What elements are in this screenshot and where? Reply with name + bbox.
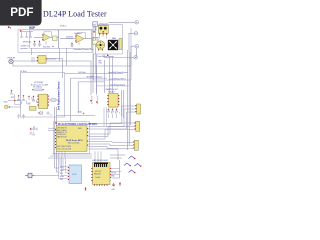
svg-text:P50: P50	[99, 63, 102, 65]
gain network U1 aux	[53, 36, 58, 41]
svg-text:div: div	[52, 46, 54, 48]
svg-text:Constant Current Circ: Constant Current Circ	[74, 48, 94, 51]
transistor Q3	[135, 164, 142, 167]
capacitor C1	[33, 41, 36, 47]
wire: MCU to J2 pin1	[89, 106, 136, 124]
wire: INA cap drops	[109, 114, 117, 119]
terminal J-A	[135, 21, 138, 24]
svg-text:V-Sense: V-Sense	[108, 91, 115, 93]
terminal J-C	[135, 45, 138, 48]
svg-text:Microcontroller: Microcontroller	[68, 142, 80, 145]
ground symbol GND1	[17, 114, 20, 118]
wire: MCU to J3 pin2	[89, 126, 135, 136]
wire: MCU to J3 pin3	[89, 129, 135, 139]
wire: load rail 1	[13, 61, 91, 95]
capacitor C14	[22, 95, 27, 104]
wire: load rail 0	[46, 58, 62, 78]
svg-text:PDF: PDF	[10, 6, 33, 19]
block frame C2	[94, 28, 132, 80]
wire: A-block stub 3	[31, 48, 33, 55]
wire: 5V rail	[65, 73, 124, 75]
wire: sense resistor drop 1	[92, 54, 94, 93]
wire: esp top feeds	[110, 157, 122, 159]
capacitor C16	[20, 37, 23, 38]
svg-text:5V0 Rail: 5V0 Rail	[78, 72, 86, 74]
svg-text:Rail Stk: Rail Stk	[43, 46, 50, 49]
transistor Q2	[124, 163, 131, 166]
wire: gate vertical 2	[77, 82, 79, 113]
wire: esp right drop	[112, 160, 120, 178]
wire: lcd top bus	[48, 154, 92, 158]
wire: right bus a	[127, 50, 129, 150]
wire: LCD feed 1	[55, 107, 60, 168]
diode D1	[94, 37, 97, 41]
svg-text:2nd Replacement Sensor: 2nd Replacement Sensor	[58, 81, 61, 110]
ESP32 module U7	[91, 163, 111, 186]
diode D2	[38, 111, 42, 115]
fan connector J5	[119, 39, 122, 50]
connector J4	[133, 140, 138, 150]
block frame A2: current set amplifier	[59, 30, 92, 48]
USB jack J6	[25, 173, 35, 178]
wire: terminal3 drop	[136, 48, 138, 58]
wire: gate vertical 1	[70, 78, 72, 115]
wire: relay feeds	[95, 26, 97, 54]
svg-text:COIL: COIL	[93, 30, 97, 32]
buck converter U3	[37, 94, 49, 108]
trimmer box U6	[93, 37, 99, 44]
wire: relay pin stubs	[100, 35, 107, 39]
svg-text:Load Wiring Select: Load Wiring Select	[109, 78, 126, 81]
svg-text:LCD: LCD	[72, 174, 77, 176]
inductor L1	[49, 99, 59, 101]
wire: MCU to J3 pin1	[89, 123, 135, 134]
LED D3	[112, 183, 116, 191]
capacitor C12	[115, 109, 120, 114]
svg-text:5Vok: 5Vok	[4, 102, 8, 104]
wire: MCU to J2 pin3	[89, 112, 136, 129]
terminal J-D	[134, 56, 137, 59]
connector J2	[135, 104, 140, 114]
wire: led cluster	[8, 96, 21, 107]
wire: mid frame line	[57, 116, 96, 122]
capacitor C19	[10, 91, 14, 96]
svg-text:VinSns: VinSns	[60, 26, 66, 28]
svg-text:FAN RLY BZ: FAN RLY BZ	[57, 135, 67, 138]
svg-text:2nd Relay Board: 2nd Relay Board	[110, 84, 125, 86]
transistor Q4	[129, 170, 136, 173]
microcontroller block U5	[55, 126, 88, 152]
wire: INA i2c pair	[104, 108, 107, 127]
svg-text:5V Rail: 5V Rail	[20, 71, 27, 73]
voltage reference cluster: wire	[20, 32, 33, 36]
connector J3	[135, 121, 140, 131]
wire: mcu left stubs	[48, 128, 56, 131]
wire: U2 out	[46, 58, 56, 60]
svg-text:Fan Relay Buzzer: Fan Relay Buzzer	[98, 55, 115, 58]
fan M1	[108, 40, 118, 50]
block frame C3	[97, 85, 130, 87]
block frame E: MCU	[54, 122, 90, 154]
wire: MCU to J4 pin3	[89, 147, 134, 149]
op-amp U1B	[60, 33, 92, 46]
capacitor C10	[107, 109, 112, 114]
svg-text:LCD_CS LCD_RS: LCD_CS LCD_RS	[57, 148, 72, 150]
block frame B: relay fan buzzer	[93, 25, 123, 55]
wire: lcd feeds left	[59, 154, 68, 179]
svg-text:FAN: FAN	[112, 37, 116, 40]
voltage reference U2	[37, 56, 47, 64]
svg-text:RST: RST	[60, 179, 63, 181]
wire: INA right bus 2	[123, 90, 125, 118]
svg-text:DL24 Tester MCU: DL24 Tester MCU	[66, 139, 83, 142]
transistor Q1	[129, 156, 136, 159]
svg-text:DL24P Load Tester: DL24P Load Tester	[43, 10, 107, 19]
relay K1	[98, 25, 108, 34]
wire: sense resistor drop 2	[96, 54, 98, 93]
resistor R21	[119, 182, 121, 186]
svg-text:ESP-32: ESP-32	[95, 171, 101, 173]
block frame D: buck converter	[21, 73, 65, 118]
crystal Y1	[30, 127, 37, 131]
wire: A-block stub 2	[66, 48, 68, 65]
wire: LCD feed 2	[57, 107, 60, 172]
LCD module LCD1	[69, 165, 82, 184]
wire: MCU to J2 pin2	[89, 109, 136, 127]
node: I2C junction	[83, 113, 85, 115]
inductor L2	[30, 106, 37, 110]
svg-text:TX RX: TX RX	[111, 173, 117, 175]
wire: INA drop 2	[108, 57, 110, 93]
op-amp U1	[34, 32, 59, 45]
capacitor C17	[25, 37, 28, 38]
wire: INA drop 1	[104, 60, 106, 93]
input terminal J1	[9, 59, 13, 63]
wire: gate line 1	[71, 77, 107, 79]
wire: esp right pin stubs	[112, 169, 122, 175]
terminal J-B	[134, 32, 137, 35]
block frame A1: input amplifier	[30, 30, 59, 48]
wire: A-block stub 1	[59, 48, 61, 61]
svg-text:5V 0.8A out: 5V 0.8A out	[33, 86, 43, 89]
ground symbol GND2	[22, 114, 25, 118]
resistor R3	[66, 37, 73, 39]
sense resistor R11	[96, 96, 98, 104]
block frame A0: outer analog group	[18, 30, 92, 53]
svg-text:R22: R22	[11, 97, 14, 99]
LCD pin rows	[60, 167, 69, 181]
wire: relay to terminal 1	[109, 21, 135, 23]
net label box NL1	[93, 22, 98, 27]
svg-text:Load Volt Board Sense: Load Volt Board Sense	[108, 71, 127, 74]
capacitor C5	[32, 57, 34, 62]
wire: mcu bottom drops	[59, 151, 65, 158]
label: mosfet area	[107, 54, 109, 56]
wire: MCU to esp bus	[89, 149, 119, 160]
indicator LED D4	[4, 105, 8, 109]
wire: MCU to esp bus 2	[95, 151, 101, 162]
resistor R20	[85, 187, 87, 191]
svg-text:Drv: Drv	[100, 77, 103, 79]
node: B left pin	[93, 31, 95, 33]
wire: frame D left edge	[20, 73, 22, 110]
capacitor C2	[38, 41, 41, 47]
svg-text:ESP-WROOM-32: ESP-WROOM-32	[93, 160, 110, 162]
wire: MCU to J4 pin2	[89, 144, 134, 145]
wire: right rail to terminal 4	[104, 54, 134, 57]
svg-text:MCP1541: MCP1541	[23, 42, 31, 44]
node: ref net	[20, 30, 22, 32]
svg-text:WROOM: WROOM	[94, 174, 101, 176]
svg-text:precision: precision	[21, 48, 28, 50]
wire: load rail 2	[13, 64, 131, 96]
capacitor C9	[47, 111, 52, 116]
PDF badge	[0, 0, 42, 26]
wire: MCU to J4 pin1	[89, 141, 134, 144]
label: MCU heading	[55, 122, 57, 124]
buzzer BZ1	[96, 41, 104, 51]
wire: gate line 2	[78, 81, 104, 83]
node: badge clipped part	[8, 26, 10, 28]
capacitor C7	[32, 96, 37, 103]
wire: usb to lcd	[35, 175, 60, 177]
wire: terminal 2 stem	[129, 33, 134, 52]
capacitor C13	[17, 95, 22, 104]
capacitor C11	[111, 109, 116, 114]
sense resistor R10	[90, 96, 92, 104]
capacitor C8	[32, 89, 43, 91]
capacitor C15	[30, 132, 35, 136]
wire: right bus c	[130, 52, 132, 125]
block frame C1	[95, 54, 97, 74]
current monitor U4 INA226	[107, 94, 119, 108]
svg-text:MOSFET Gate: MOSFET Gate	[87, 76, 99, 79]
svg-text:WIP: WIP	[29, 26, 36, 30]
wire: esp top feeds 2	[110, 154, 125, 156]
wire: right bus b	[128, 52, 130, 145]
wire: terminal 3 stem	[131, 46, 135, 66]
capacitor C18	[29, 37, 32, 38]
capacitor C4	[71, 43, 74, 48]
capacitor C6	[28, 96, 33, 104]
wire: INA drop 3	[112, 57, 114, 93]
wire: INA right bus 1	[121, 90, 123, 116]
